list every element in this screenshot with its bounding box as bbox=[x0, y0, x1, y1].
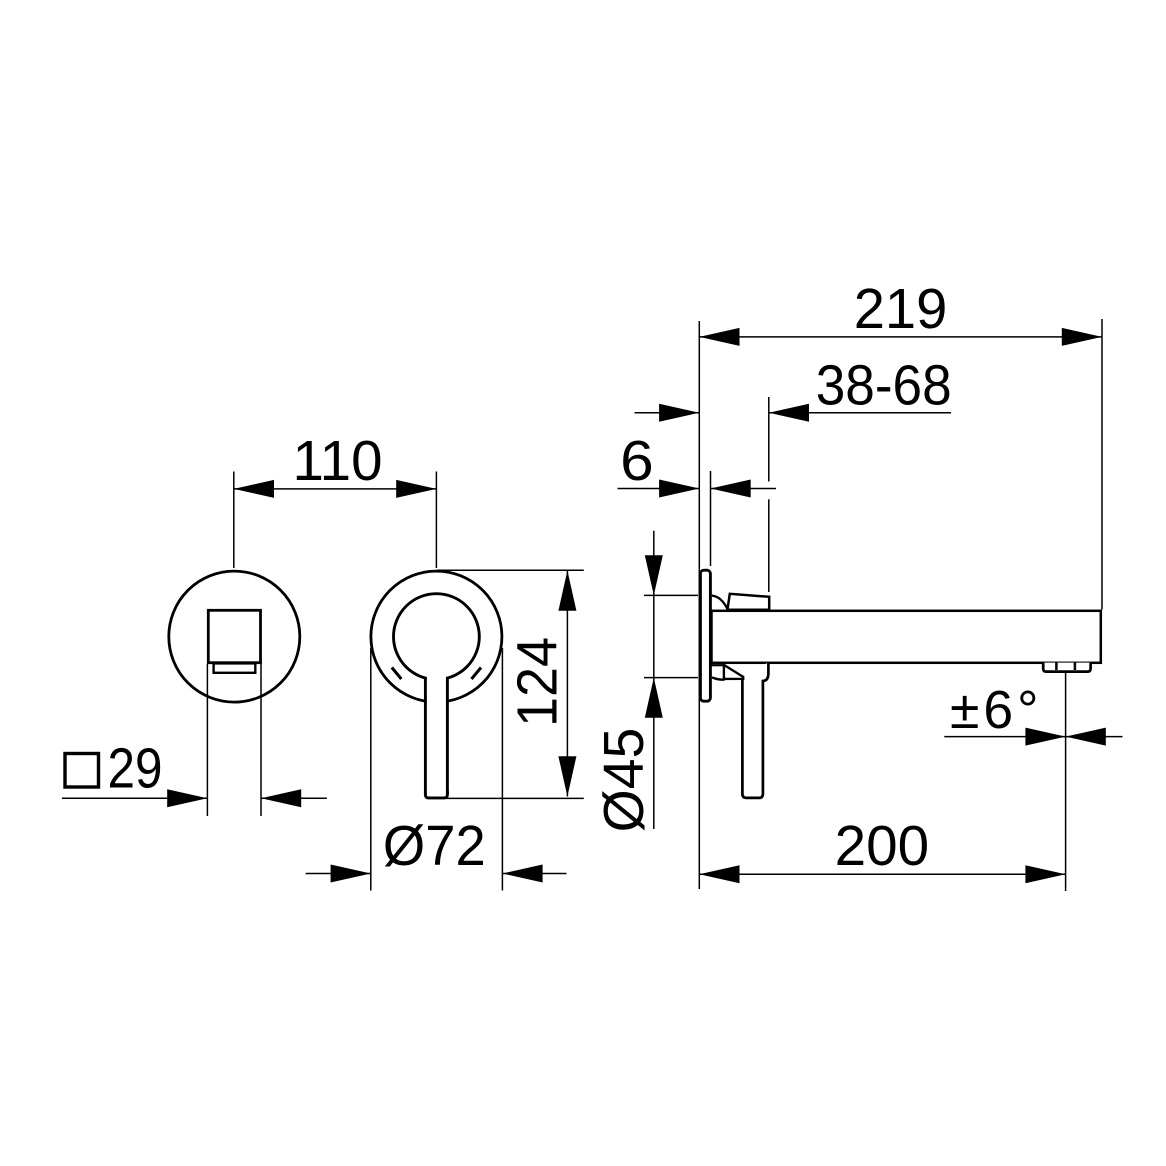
extension line: 124 top (from circle2 top right) bbox=[437, 569, 584, 571]
handle lever stem (side) bbox=[742, 663, 768, 798]
arrowhead 219 right bbox=[1062, 328, 1102, 346]
rotation tick right bbox=[472, 668, 482, 680]
svg-text:110: 110 bbox=[292, 429, 382, 492]
extension line: aerator centre (200 ref) bbox=[1065, 673, 1067, 891]
svg-text:Ø45: Ø45 bbox=[592, 728, 655, 833]
escutcheon circle 1 (square rosette face) bbox=[169, 571, 300, 702]
svg-text:6: 6 bbox=[620, 429, 654, 492]
arrowhead 110 left bbox=[234, 480, 274, 498]
arrowhead pm6 left (pointing right) bbox=[1025, 728, 1065, 746]
white mask for lever stem over circles bbox=[427, 640, 446, 797]
wall plate (side) bbox=[700, 570, 710, 701]
arrowhead 219 left bbox=[699, 328, 739, 346]
extension line: circle2 left tangent down (O72) bbox=[370, 648, 372, 891]
dimension line square 29 right part bbox=[261, 797, 327, 799]
dimension line 110 bbox=[234, 488, 437, 490]
dimension line plusminus 6 bbox=[944, 736, 1122, 738]
dimension line 38-68 left part bbox=[635, 412, 700, 414]
dimension line 200 bbox=[699, 873, 1065, 875]
lever stem left edge bbox=[424, 678, 427, 795]
arrowhead O72 right (pointing left) bbox=[502, 865, 542, 883]
dimension line 38-68 right part bbox=[769, 412, 951, 414]
arrowhead 200 right bbox=[1025, 865, 1065, 883]
extension line: square right edge down bbox=[260, 664, 262, 816]
extension line: 124 bottom (from stem bottom right) bbox=[426, 797, 584, 799]
escutcheon circle 2 (handle rosette, outer) bbox=[371, 571, 502, 702]
lever stem right edge bbox=[446, 678, 449, 795]
extension line: O45 bottom bbox=[644, 677, 698, 679]
aerator lip below square bbox=[214, 663, 256, 672]
dimension line 219 bbox=[699, 336, 1102, 338]
lever stem bottom cap bbox=[425, 791, 447, 798]
arrowhead 29 right (pointing left) bbox=[261, 789, 301, 807]
square spout face plate bbox=[208, 610, 260, 662]
svg-text:124: 124 bbox=[506, 637, 569, 727]
arrowhead 38-68 right (pointing left) bbox=[769, 404, 809, 422]
arrowhead O45 bottom (pointing up) bbox=[645, 678, 663, 718]
svg-text:38-68: 38-68 bbox=[816, 354, 952, 417]
handle ring inner circle bbox=[394, 594, 480, 680]
dimension line 124 bbox=[566, 571, 568, 797]
arrowhead pm6 right (pointing left) bbox=[1066, 728, 1106, 746]
lever wedge under spout bbox=[724, 665, 743, 679]
rotation tick left bbox=[392, 668, 402, 680]
svg-text:29: 29 bbox=[108, 737, 163, 800]
arrowhead 6 left (pointing right) bbox=[659, 480, 699, 498]
extension line: square left edge down bbox=[206, 664, 208, 816]
extension line: spout tip (219 ref) bbox=[1101, 319, 1103, 610]
extension line: circle2 right tangent down (O72) bbox=[501, 648, 503, 891]
svg-text:219: 219 bbox=[854, 277, 948, 340]
extension line: 110 left (from circle 1 top up) bbox=[233, 472, 235, 569]
aerator at spout tip bbox=[1043, 663, 1090, 672]
dimension line square 29 left part bbox=[62, 797, 208, 799]
arrowhead 110 right bbox=[396, 480, 436, 498]
arrowhead 124 top (pointing up) bbox=[558, 571, 576, 611]
arrowhead 124 bottom (pointing down) bbox=[558, 756, 576, 796]
arrowhead O72 left (pointing right) bbox=[331, 865, 371, 883]
spout body (side) bbox=[712, 611, 1101, 663]
extension line: 110 right (from circle 2 top up) bbox=[435, 472, 437, 569]
sleeve bottom curve bbox=[712, 677, 725, 679]
dimension line 6 right part bbox=[711, 488, 777, 490]
arrowhead O45 top (pointing down) bbox=[645, 555, 663, 595]
dimension line O72 left part bbox=[306, 873, 371, 875]
sleeve top line under spout bbox=[712, 664, 725, 666]
arrowhead 200 left bbox=[699, 865, 739, 883]
label square symbol of 29 bbox=[65, 754, 99, 788]
aerator tick 2 bbox=[1074, 663, 1077, 670]
cartridge stop block on spout top bbox=[727, 594, 769, 610]
neck curve plate-to-block (top) bbox=[712, 596, 728, 610]
dimension line O45 vertical bbox=[653, 531, 655, 829]
extension line: plate back (x=710.5) bbox=[710, 471, 712, 566]
arrowhead 38-68 left (pointing right) bbox=[659, 404, 699, 422]
arrowhead 6 right (pointing left) bbox=[711, 480, 751, 498]
aerator tick 1 bbox=[1055, 663, 1058, 670]
dimension line O72 right part bbox=[502, 873, 566, 875]
svg-text:200: 200 bbox=[835, 814, 930, 877]
extension line: O45 top bbox=[644, 594, 698, 596]
arrowhead 29 left (pointing right) bbox=[167, 789, 207, 807]
dimension line 6 left part bbox=[618, 488, 700, 490]
svg-text:Ø72: Ø72 bbox=[383, 814, 486, 877]
extension line: wall face / plate front (x=699) bbox=[698, 321, 700, 889]
extension line: handle front face (38-68 ref) bbox=[768, 397, 770, 482]
